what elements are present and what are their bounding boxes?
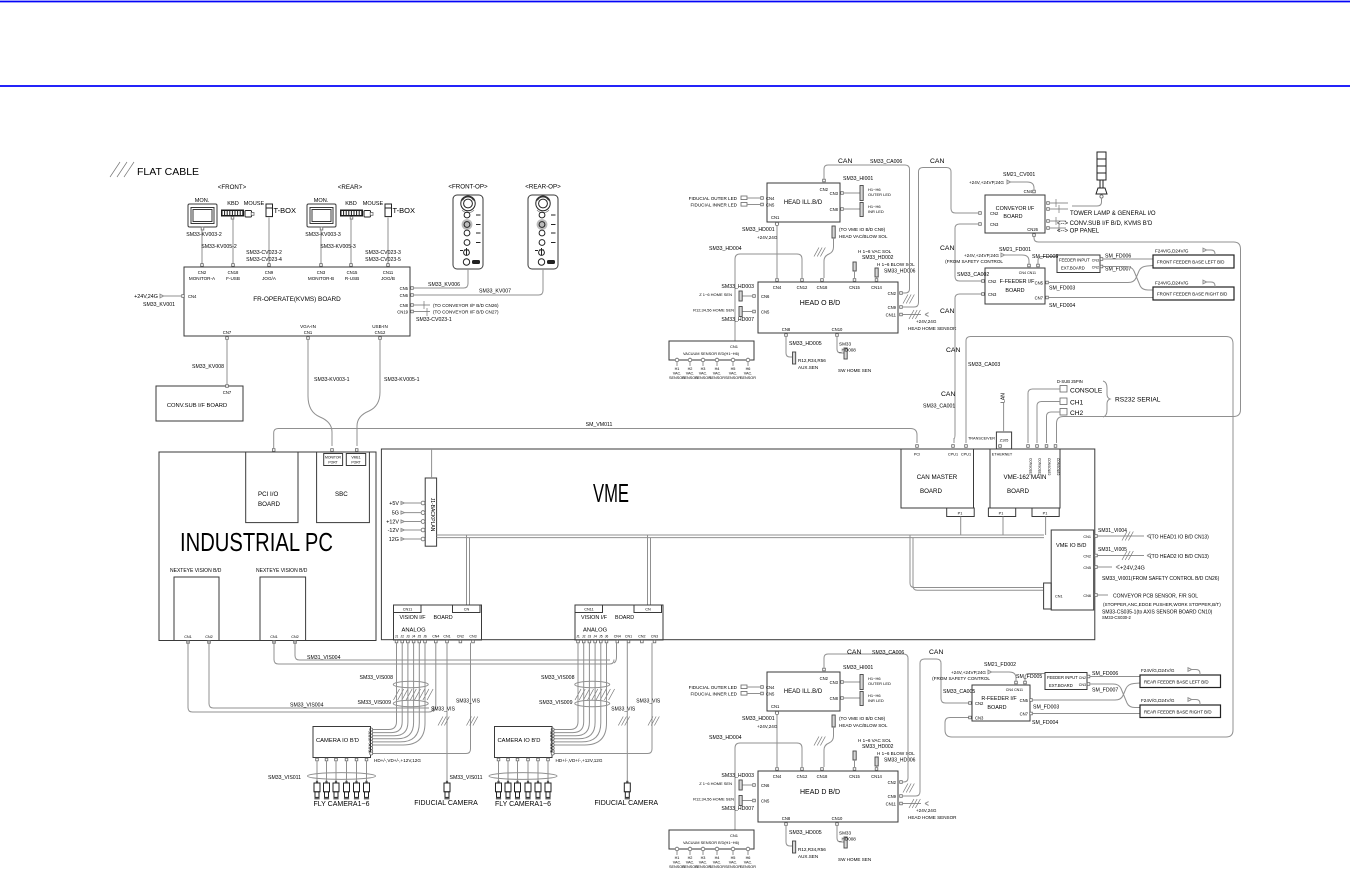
- svg-text:SM33-KV003-2: SM33-KV003-2: [186, 232, 222, 238]
- wire fly camera 6 C2: [547, 761, 549, 784]
- svg-text:SM33_HI001: SM33_HI001: [843, 665, 873, 671]
- svg-text:SM33_HD001: SM33_HD001: [742, 716, 775, 722]
- svg-text:CN4: CN4: [614, 635, 621, 639]
- svg-text:CN2: CN2: [1079, 676, 1086, 680]
- wire SM_FD006 front: [1103, 258, 1154, 260]
- wire bus drop vision1 a: [466, 535, 468, 605]
- svg-text:SM33_HD004: SM33_HD004: [709, 735, 742, 741]
- svg-text:CN4: CN4: [1006, 688, 1013, 692]
- svg-text:BOARD: BOARD: [920, 488, 943, 495]
- svg-text:H1: H1: [675, 856, 680, 860]
- svg-text:J6: J6: [423, 635, 427, 639]
- svg-text:CN8: CN8: [830, 207, 839, 212]
- svg-text:CN15: CN15: [347, 270, 358, 275]
- svg-text:R12,34,56 HOME SEN: R12,34,56 HOME SEN: [693, 308, 734, 313]
- wire P1 to bus b: [1002, 517, 1004, 536]
- svg-text:SW HOME SEN: SW HOME SEN: [838, 857, 871, 862]
- svg-text:USB-IN: USB-IN: [372, 324, 388, 329]
- svg-text:+24V,24G: +24V,24G: [916, 319, 937, 324]
- svg-text:HEAD O B/D: HEAD O B/D: [800, 300, 840, 307]
- svg-text:CN8: CN8: [830, 696, 839, 701]
- svg-text:_HD008: _HD008: [838, 837, 856, 842]
- wire LAN to transceiver: [1003, 403, 1005, 432]
- board HEAD O B/D H1: [758, 282, 898, 333]
- svg-text:CN4: CN4: [766, 196, 775, 201]
- svg-text:VAC.: VAC.: [673, 372, 682, 376]
- svg-text:VAC.: VAC.: [744, 372, 753, 376]
- svg-text:CONVEYOR I/F: CONVEYOR I/F: [996, 206, 1035, 212]
- wire camera J6 C2: [554, 643, 607, 745]
- wire P1 to bus c: [1045, 517, 1047, 536]
- wire fly camera 5 C1: [356, 761, 358, 784]
- wire bus drop vision2 b: [650, 538, 652, 605]
- svg-text:SM33-KV003-3: SM33-KV003-3: [305, 232, 341, 238]
- svg-text:SENSOR: SENSOR: [740, 865, 756, 869]
- svg-text:SM33_CA001: SM33_CA001: [923, 404, 955, 410]
- svg-text:ETHERNET: ETHERNET: [992, 453, 1013, 457]
- wire camera J5 C1: [372, 643, 419, 742]
- svg-text:CN11: CN11: [886, 313, 897, 318]
- svg-text:+24V,24G: +24V,24G: [134, 294, 158, 300]
- wire conveyor pcb sensor: [1097, 594, 1108, 596]
- vacuum sensor H2 H1: [688, 358, 692, 362]
- svg-text:J4: J4: [593, 635, 597, 639]
- wire head vac/blow H1: [824, 238, 834, 278]
- vacuum sensor H3 H2: [701, 847, 705, 851]
- brace RS232: [1103, 381, 1110, 417]
- cable bundle fly C1: [308, 773, 376, 780]
- svg-text:SM_FD007: SM_FD007: [1105, 267, 1131, 273]
- svg-text:SM33-KV005-3: SM33-KV005-3: [320, 244, 356, 250]
- wire CAN SM33_CA001 F-FEEDER-CN3 to CPU1: [954, 294, 982, 443]
- svg-text:SM33-KV005-2: SM33-KV005-2: [201, 244, 237, 250]
- svg-text:FIDUCIAL OUTER LED: FIDUCIAL OUTER LED: [689, 685, 738, 690]
- svg-text:SM33_CA005: SM33_CA005: [943, 689, 975, 695]
- wire fly camera 6 C1: [366, 761, 368, 784]
- svg-text:H3: H3: [701, 367, 706, 371]
- board REAR FEEDER BASE RIGHT: [1140, 705, 1221, 718]
- svg-text:SM33-CV023-2: SM33-CV023-2: [246, 250, 282, 256]
- svg-text:SM33_VIS: SM33_VIS: [636, 699, 661, 705]
- svg-text:CN3: CN3: [975, 716, 984, 721]
- svg-text:SM33_HD004: SM33_HD004: [709, 246, 742, 252]
- svg-text:F24V/G,D24V/G: F24V/G,D24V/G: [1141, 668, 1175, 673]
- svg-text:H1: H1: [675, 367, 680, 371]
- connector CN11 V2: [575, 605, 603, 613]
- svg-text:SM33-KV005-1: SM33-KV005-1: [384, 377, 420, 383]
- connector CN top V1: [453, 605, 481, 613]
- board HEAD ILL.B/D H2: [767, 672, 840, 711]
- wire +24V to F-FEEDER CN4: [1005, 255, 1030, 264]
- svg-text:PORT: PORT: [351, 461, 360, 465]
- wire monitor-A to CN2: [201, 230, 203, 267]
- svg-text:SM33_HD007: SM33_HD007: [721, 317, 754, 323]
- wire SM31_VIS004 nexteye2 to V2-CN4: [274, 641, 617, 665]
- monitor MON rear: [307, 204, 336, 230]
- connector CN1 side: [1044, 583, 1052, 609]
- svg-text:CN2: CN2: [291, 635, 299, 639]
- svg-text:SM33_HD001: SM33_HD001: [742, 227, 775, 233]
- svg-text:SM33_HD003: SM33_HD003: [721, 773, 754, 779]
- svg-text:MONITOR-B: MONITOR-B: [308, 276, 334, 281]
- wire SM33_HD001 H2: [776, 715, 778, 767]
- svg-text:H2: H2: [688, 856, 693, 860]
- svg-text:INR LED: INR LED: [868, 209, 884, 214]
- svg-text:CN2: CN2: [638, 635, 645, 639]
- svg-text:CAN MASTER: CAN MASTER: [917, 474, 958, 481]
- svg-text:SM33_VIS011: SM33_VIS011: [268, 775, 301, 781]
- svg-text:<REAR>: <REAR>: [338, 184, 363, 191]
- board VME rack: [381, 449, 1094, 640]
- camera FLY1 C2: [496, 781, 502, 799]
- svg-text:VACUUM SENSOR B'D(H1~H6): VACUUM SENSOR B'D(H1~H6): [683, 351, 740, 356]
- power pin +5V: [421, 501, 425, 505]
- svg-text:BOARD: BOARD: [434, 615, 453, 621]
- wire SM_FD004 front: [1048, 297, 1153, 299]
- svg-text:CN12: CN12: [797, 774, 808, 779]
- wire bus drop vision1 b: [469, 538, 471, 605]
- svg-text:HEAD VAC/BLOW SOL: HEAD VAC/BLOW SOL: [839, 234, 888, 239]
- camera FLY4 C2: [525, 781, 531, 799]
- svg-text:SENSOR: SENSOR: [709, 376, 725, 380]
- camera FLY6 C1: [364, 781, 370, 799]
- svg-text:J5: J5: [418, 635, 422, 639]
- wire SM33_KV006 to FRONT-OP: [413, 269, 468, 288]
- svg-text:SM_FD005: SM_FD005: [1032, 254, 1058, 260]
- board R-FEEDER I/F: [972, 685, 1030, 721]
- svg-text:+24V,+24VP,24G: +24V,+24VP,24G: [969, 180, 1004, 185]
- connector P1b VME-162: [1032, 508, 1059, 517]
- mouse rear: [364, 211, 373, 218]
- svg-text:KBD: KBD: [227, 201, 239, 207]
- camera FIDUCIAL C2: [624, 781, 630, 799]
- connector conv.sub/op I/O: [1047, 220, 1050, 223]
- wire console: [1028, 389, 1060, 443]
- connector CH2: [1060, 409, 1067, 416]
- svg-text:CN2: CN2: [888, 780, 897, 785]
- svg-text:J2: J2: [400, 635, 404, 639]
- svg-text:ANALOG: ANALOG: [583, 628, 608, 634]
- svg-text:SM21_FD002: SM21_FD002: [984, 662, 1016, 668]
- svg-text:SM33_CA003: SM33_CA003: [968, 362, 1000, 368]
- svg-text:R12,R34,R56: R12,R34,R56: [798, 358, 826, 363]
- svg-text:CN3: CN3: [1092, 259, 1099, 263]
- svg-text:SM33_VIS009: SM33_VIS009: [358, 700, 392, 706]
- svg-text:J4: J4: [412, 635, 416, 639]
- svg-text:SM33_HD002: SM33_HD002: [862, 255, 894, 261]
- vacuum sensor H5 H1: [731, 358, 735, 362]
- svg-text:VAC.: VAC.: [713, 372, 722, 376]
- wire camera J2 C1: [372, 643, 402, 733]
- svg-text:(FROM SAFETY CONTROL: (FROM SAFETY CONTROL: [932, 676, 990, 681]
- LED bar H1~H6 outer H1: [860, 186, 863, 201]
- svg-text:+5V: +5V: [389, 501, 399, 507]
- svg-text:H5: H5: [731, 367, 736, 371]
- svg-text:SM21_FD001: SM21_FD001: [999, 247, 1031, 253]
- svg-text:SM33_VIS: SM33_VIS: [431, 707, 456, 713]
- svg-text:SM_FD004: SM_FD004: [1032, 720, 1058, 726]
- svg-text:CONSOLE2: CONSOLE2: [1029, 458, 1033, 476]
- svg-text:HD+/-,VD+/-,+12V,12G: HD+/-,VD+/-,+12V,12G: [556, 758, 603, 763]
- svg-text:FIDUCIAL OUTER LED: FIDUCIAL OUTER LED: [689, 196, 738, 201]
- wire SM33-KV005-1 USB chain: [357, 339, 380, 446]
- wire CAN loop SM33_CA003 to R-FEEDER-CN3: [945, 337, 1233, 738]
- wire CAN SM33_CA002 conveyor-CN3 to F-FEEDER-CN2: [955, 224, 982, 281]
- svg-text:CH1: CH1: [1070, 400, 1084, 407]
- svg-text:(FROM SAFETY CONTROL: (FROM SAFETY CONTROL: [945, 259, 1003, 264]
- svg-text:CN2: CN2: [1083, 555, 1091, 559]
- svg-text:H2: H2: [688, 367, 693, 371]
- svg-text:CN5: CN5: [1020, 698, 1029, 703]
- svg-text:BOARD: BOARD: [1005, 288, 1024, 294]
- svg-text:CN3: CN3: [317, 270, 326, 275]
- wire SM33_HD008 H2: [837, 825, 844, 842]
- wire F24V rear right: [1192, 700, 1201, 706]
- wire camera J2 C2: [554, 643, 584, 733]
- svg-text:OUTER LED: OUTER LED: [868, 681, 891, 686]
- svg-text:CN8: CN8: [782, 816, 791, 821]
- svg-text:SW HOME SEN: SW HOME SEN: [838, 368, 871, 373]
- svg-text:SM33-CV023-5: SM33-CV023-5: [365, 257, 401, 263]
- solenoid H1-6 VAC H1: [853, 262, 856, 271]
- wire CAN HEAD-CN9 to CONVEYOR-CN2: [902, 168, 978, 308]
- svg-text:SM33_VIS009: SM33_VIS009: [539, 700, 573, 706]
- svg-text:CN4: CN4: [773, 285, 782, 290]
- wire SM33_VIS004 nexteye1 to V1-CN4: [188, 641, 436, 713]
- wire camera J3 C1: [372, 643, 408, 736]
- svg-text:CN11: CN11: [403, 608, 412, 612]
- svg-text:CN4: CN4: [766, 685, 775, 690]
- wire SM33_HD005 H2: [786, 825, 792, 846]
- svg-text:LAN: LAN: [1001, 393, 1007, 403]
- board HEAD O B/D H2: [758, 771, 898, 822]
- wire SM33_HD004 H1: [735, 254, 802, 341]
- svg-text:CN12: CN12: [375, 330, 386, 335]
- wire keyboard rear to CN15: [350, 219, 352, 267]
- svg-text:SM33: SM33: [839, 831, 851, 836]
- svg-text:CN5: CN5: [766, 203, 775, 208]
- svg-text:AUX.SEN: AUX.SEN: [798, 854, 818, 859]
- svg-text:MOUSE: MOUSE: [244, 201, 265, 207]
- svg-text:FRONT FEEDER BASE LEFT B/D: FRONT FEEDER BASE LEFT B/D: [1157, 260, 1224, 265]
- wire fly camera 4 C2: [527, 761, 529, 784]
- svg-text:P1: P1: [999, 512, 1004, 516]
- wire bus to VME IO a: [910, 535, 1043, 588]
- svg-text:SENSOR: SENSOR: [740, 376, 756, 380]
- wire SM33-KV003-1 VGA chain: [308, 339, 332, 446]
- svg-text:CPU1: CPU1: [961, 453, 971, 457]
- port MONITOR: [324, 454, 343, 466]
- wire CAN SM33_CA005 HEAD2-CN9 to R-FEEDER-CN2: [902, 659, 969, 796]
- wire +24V to conveyor CN4: [1011, 182, 1035, 190]
- svg-text:SM33_VIS004: SM33_VIS004: [290, 703, 324, 709]
- svg-text:CN6: CN6: [400, 293, 409, 298]
- board PCI I/O: [246, 452, 298, 523]
- svg-text:FR-OPERATE(KVMS) BOARD: FR-OPERATE(KVMS) BOARD: [253, 296, 341, 303]
- connector P1 CAN MASTER: [947, 508, 975, 517]
- svg-text:CN18: CN18: [228, 270, 239, 275]
- svg-text:SM33_CA006: SM33_CA006: [870, 159, 902, 165]
- svg-text:(TO CONVEYOR I/F B/D CN26): (TO CONVEYOR I/F B/D CN26): [433, 303, 499, 308]
- wire P1 to bus a: [960, 517, 962, 536]
- svg-text:CAN: CAN: [940, 308, 954, 315]
- svg-text:OUTER LED: OUTER LED: [868, 192, 891, 197]
- connector CH1: [1060, 398, 1067, 405]
- flat cable mark CN3 C1: [467, 717, 478, 726]
- svg-text:HEAD D B/D: HEAD D B/D: [800, 789, 840, 796]
- solenoid H1-6 VAC H2: [853, 751, 856, 760]
- wire CAN ILL2-CN2 to HEAD2-CN2: [824, 654, 908, 782]
- cable bundle C1: [393, 681, 428, 687]
- power pin -12V: [421, 528, 425, 532]
- svg-text:H4: H4: [715, 856, 720, 860]
- svg-text:INR LED: INR LED: [868, 698, 884, 703]
- svg-text:R-USB: R-USB: [345, 276, 359, 281]
- svg-text:CN6: CN6: [761, 294, 770, 299]
- connector CN11 V1: [394, 605, 422, 613]
- svg-text:CAN: CAN: [941, 391, 955, 398]
- solenoid VAC/BLOW H1: [832, 226, 835, 238]
- svg-text:HEAD HOME SENSOR: HEAD HOME SENSOR: [908, 815, 957, 820]
- svg-text:SM33_HD003: SM33_HD003: [721, 284, 754, 290]
- svg-text:CN18: CN18: [817, 285, 828, 290]
- connector J1-BACKPLAN: [425, 478, 436, 546]
- keyboard KBD rear: [340, 210, 363, 220]
- vacuum sensor H1 H1: [675, 358, 679, 362]
- svg-text:H6: H6: [746, 367, 751, 371]
- teach box T-BOX rear: [385, 204, 392, 217]
- svg-text:(TO HEAD2 IO B/D CN13): (TO HEAD2 IO B/D CN13): [1150, 554, 1209, 560]
- svg-text:TRANSCEIVER: TRANSCEIVER: [968, 437, 995, 441]
- svg-text:CN1: CN1: [625, 635, 632, 639]
- vacuum sensor H2 H2: [688, 847, 692, 851]
- svg-text:(TO CONVEYOR I/F B/D CN27): (TO CONVEYOR I/F B/D CN27): [433, 310, 499, 315]
- svg-text:SM33_VIS008: SM33_VIS008: [360, 675, 394, 681]
- svg-text:H 1~6 VAC SOL: H 1~6 VAC SOL: [858, 249, 892, 254]
- svg-text:CAN: CAN: [940, 245, 954, 252]
- svg-text:CN5: CN5: [400, 286, 409, 291]
- wire +24V to R-FEEDER CN4: [992, 672, 1017, 681]
- camera FLY2 C2: [505, 781, 511, 799]
- flat cable mark: [424, 301, 427, 316]
- svg-text:J1-BACKPLAN: J1-BACKPLAN: [429, 498, 435, 532]
- svg-text:SM33_VIS011: SM33_VIS011: [450, 775, 483, 781]
- svg-text:CN2: CN2: [820, 187, 829, 192]
- svg-text:H6: H6: [746, 856, 751, 860]
- wire +24V VME IO: [1097, 566, 1112, 568]
- svg-text:SM_FD003: SM_FD003: [1033, 705, 1059, 711]
- svg-text:SM33-KV003-1: SM33-KV003-1: [314, 377, 350, 383]
- cable bundle fly C2: [489, 773, 557, 780]
- svg-text:CAN: CAN: [838, 158, 852, 165]
- svg-text:FLY CAMERA1~6: FLY CAMERA1~6: [314, 801, 370, 808]
- svg-text:CN1: CN1: [1083, 535, 1091, 539]
- svg-text:EXT.BOARD: EXT.BOARD: [1049, 683, 1073, 688]
- svg-text:+12V: +12V: [386, 520, 399, 526]
- svg-text:CN1: CN1: [730, 833, 739, 838]
- svg-text:CONSOLE2: CONSOLE2: [1038, 458, 1042, 476]
- svg-text:+24V,24G: +24V,24G: [1120, 566, 1145, 572]
- operator panel FRONT-OP: [448, 184, 488, 270]
- svg-text:-12V: -12V: [388, 528, 400, 534]
- svg-text:FLAT CABLE: FLAT CABLE: [137, 166, 199, 178]
- svg-text:CONV.SUB I/F BOARD: CONV.SUB I/F BOARD: [167, 403, 227, 409]
- svg-text:CN2: CN2: [820, 676, 829, 681]
- wire head home sensor H2: [902, 803, 921, 805]
- svg-text:INDUSTRIAL PC: INDUSTRIAL PC: [180, 527, 333, 557]
- svg-text:JOG/B: JOG/B: [381, 276, 395, 281]
- board INDUSTRIAL PC: [159, 452, 376, 641]
- connector tower lamp I/O: [1047, 202, 1050, 205]
- svg-text:SM31_VI005: SM31_VI005: [1098, 547, 1127, 553]
- camera FLY3 C2: [515, 781, 521, 799]
- svg-text:HEAD VAC/BLOW SOL: HEAD VAC/BLOW SOL: [839, 723, 888, 728]
- svg-text:CN5: CN5: [761, 310, 770, 315]
- vacuum sensor H6 H1: [746, 358, 750, 362]
- svg-text:(TO VME IO B/D CN9): (TO VME IO B/D CN9): [839, 227, 886, 232]
- svg-text:CN: CN: [645, 608, 651, 612]
- wire SM_VM011 PCI to CAN MASTER: [274, 429, 917, 450]
- wire camera J6 C1: [372, 643, 425, 745]
- svg-text:SM33_HI001: SM33_HI001: [843, 176, 873, 182]
- svg-text:F-FEEDER I/F: F-FEEDER I/F: [1000, 279, 1035, 285]
- wire tower lamp: [1072, 198, 1102, 206]
- svg-text:VAC.: VAC.: [686, 372, 695, 376]
- wire monitor-B to CN3: [320, 230, 322, 267]
- svg-text:Z105: Z105: [1000, 439, 1009, 443]
- wire F24V front right: [1207, 282, 1216, 287]
- svg-text:CN15: CN15: [849, 285, 860, 290]
- board VME IO B/D: [1051, 530, 1094, 610]
- wire HD/VD power C1: [371, 643, 471, 755]
- wire conveyor CN26 to VME-162 console4: [1034, 237, 1241, 444]
- board F-FEEDER I/F: [985, 268, 1045, 304]
- svg-text:FRONT FEEDER BASE RIGHT B/D: FRONT FEEDER BASE RIGHT B/D: [1157, 292, 1227, 297]
- wire to conveyor CN27: [413, 311, 430, 313]
- svg-text:MON.: MON.: [314, 198, 329, 204]
- vacuum sensor H3 H1: [701, 358, 705, 362]
- svg-text:SM33: SM33: [839, 342, 851, 347]
- svg-text:CN18: CN18: [817, 774, 828, 779]
- svg-text:VME1: VME1: [351, 456, 360, 460]
- svg-text:SM21_CV001: SM21_CV001: [1003, 172, 1035, 178]
- flat cable mark CA006: [903, 295, 914, 304]
- svg-text:CN4: CN4: [1024, 189, 1033, 194]
- vacuum sensor H4 H1: [715, 358, 719, 362]
- svg-text:AUX.SEN: AUX.SEN: [798, 365, 818, 370]
- vacuum sensor H5 H2: [731, 847, 735, 851]
- svg-text:CONVEYOR PCB SENSOR, F/R SOL: CONVEYOR PCB SENSOR, F/R SOL: [1113, 594, 1198, 600]
- sensor AUX H1: [793, 352, 796, 364]
- wire camera J3 C2: [554, 643, 590, 736]
- svg-text:SM33-CV023-4: SM33-CV023-4: [246, 257, 282, 263]
- board CAMERA IO C1: [313, 727, 371, 758]
- connector CN top V2: [634, 605, 662, 613]
- board FR-OPERATE(KVMS): [184, 267, 410, 336]
- svg-text:BOARD: BOARD: [258, 501, 281, 508]
- svg-text:P1: P1: [958, 512, 963, 516]
- svg-text:VGA-IN: VGA-IN: [300, 324, 316, 329]
- svg-text:CN8: CN8: [782, 327, 791, 332]
- svg-text:SM33_VIS008: SM33_VIS008: [541, 675, 575, 681]
- svg-text:CN2: CN2: [457, 635, 464, 639]
- sensor AUX H2: [793, 841, 796, 853]
- svg-text:<--> CONV.SUB I/F B/D, KVMS B': <--> CONV.SUB I/F B/D, KVMS B'D: [1057, 221, 1153, 227]
- svg-text:CN1: CN1: [304, 330, 313, 335]
- svg-text:HEAD HOME SENSOR: HEAD HOME SENSOR: [908, 326, 957, 331]
- svg-text:CN6: CN6: [761, 783, 770, 788]
- wire fly camera 3 C2: [517, 761, 519, 784]
